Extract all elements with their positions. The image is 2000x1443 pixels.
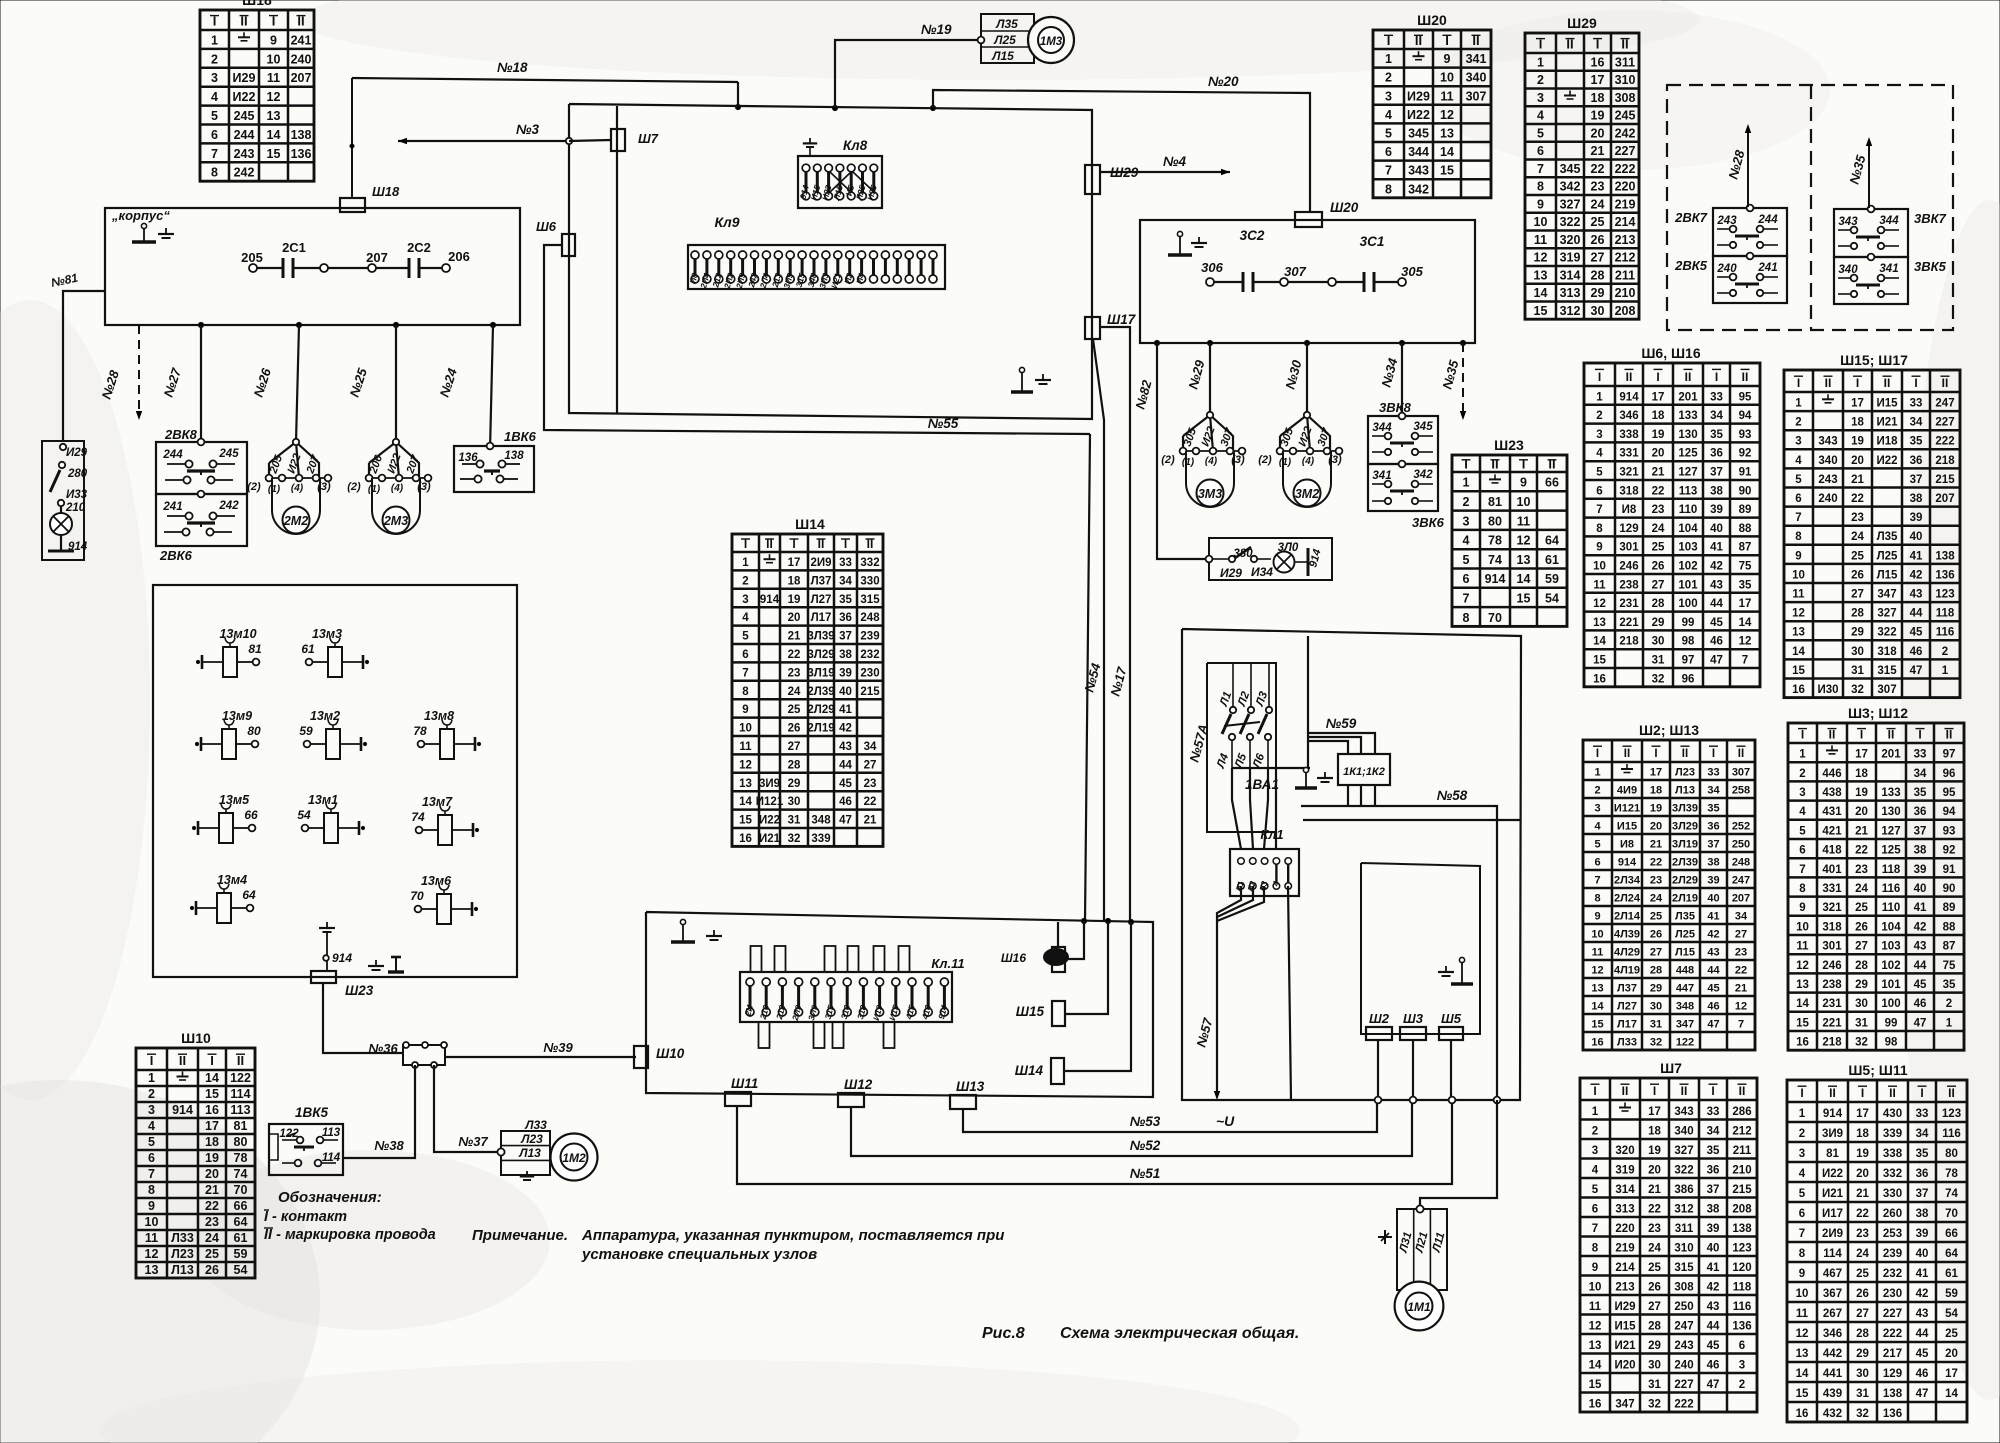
svg-text:36: 36 (1914, 806, 1927, 818)
svg-text:37: 37 (839, 631, 852, 643)
svg-text:1ВК5: 1ВК5 (295, 1105, 329, 1120)
svg-text:И22: И22 (1407, 108, 1430, 122)
svg-text:212: 212 (1615, 251, 1636, 265)
svg-text:1: 1 (1537, 56, 1544, 70)
wire Ш2 drop (1377, 1040, 1379, 1100)
svg-text:36: 36 (1707, 821, 1719, 833)
svg-text:27: 27 (1648, 1301, 1661, 1313)
svg-text:20: 20 (1855, 806, 1868, 818)
svg-text:8: 8 (1385, 182, 1392, 196)
svg-text:Ш29: Ш29 (1567, 15, 1597, 31)
svg-text:5: 5 (1799, 1188, 1806, 1200)
junction t3 (1128, 919, 1133, 924)
svg-text:341: 341 (1372, 470, 1391, 482)
wire bus-Кл1 d (1275, 768, 1277, 849)
solenoid 13м8 (413, 709, 480, 759)
svg-text:81: 81 (248, 642, 262, 656)
solenoid 13м6 (410, 874, 477, 924)
svg-text:9: 9 (1444, 52, 1451, 66)
svg-text:11: 11 (1593, 579, 1606, 591)
svg-text:201: 201 (1678, 391, 1698, 403)
svg-text:240: 240 (1674, 1359, 1693, 1371)
switch 2ВК8/2ВК6 (156, 427, 247, 563)
svg-text:II: II (1685, 370, 1692, 384)
svg-text:127: 127 (1881, 825, 1900, 837)
svg-text:36: 36 (1916, 1168, 1929, 1180)
svg-text:41: 41 (1914, 902, 1927, 914)
svg-text:42: 42 (1916, 1288, 1929, 1300)
svg-text:22: 22 (1855, 845, 1868, 857)
svg-text:3: 3 (1799, 1148, 1805, 1160)
svg-text:28: 28 (1652, 598, 1665, 610)
svg-text:311: 311 (1675, 1223, 1694, 1235)
svg-text:I: I (1464, 456, 1468, 471)
svg-text:81: 81 (234, 1119, 248, 1133)
svg-text:23: 23 (1851, 512, 1864, 524)
svg-text:2Л39: 2Л39 (1672, 857, 1698, 869)
svg-text:59: 59 (1945, 1288, 1958, 1300)
svg-text:4Л39: 4Л39 (1614, 929, 1640, 941)
svg-text:20: 20 (1851, 455, 1864, 467)
svg-text:286: 286 (1732, 1106, 1751, 1118)
svg-text:23: 23 (205, 1215, 219, 1229)
wire Ш14-t3 (1064, 922, 1131, 1071)
svg-text:2Л24: 2Л24 (1614, 893, 1641, 905)
junction b1 (1375, 1097, 1382, 1104)
svg-text:74: 74 (411, 810, 425, 824)
svg-text:78: 78 (1488, 534, 1502, 548)
svg-text:И22: И22 (233, 90, 256, 104)
svg-text:Ш11: Ш11 (731, 1076, 758, 1091)
svg-text:18: 18 (1648, 1125, 1661, 1137)
motor 2М2 (247, 439, 331, 534)
svg-text:914: 914 (68, 541, 88, 553)
svg-text:136: 136 (1732, 1320, 1751, 1332)
svg-text:II: II (1884, 376, 1891, 390)
svg-text:40: 40 (1916, 1248, 1929, 1260)
svg-text:242: 242 (218, 500, 239, 512)
svg-text:№3: №3 (516, 122, 539, 137)
svg-text:130: 130 (1678, 429, 1697, 441)
motor 3М3 (1161, 412, 1245, 507)
svg-text:13: 13 (1796, 1348, 1809, 1360)
svg-text:45: 45 (1910, 627, 1923, 639)
svg-text:138: 138 (291, 128, 312, 142)
svg-text:20: 20 (1856, 1168, 1869, 1180)
svg-text:914: 914 (760, 594, 780, 606)
svg-text:37: 37 (1707, 839, 1719, 851)
svg-text:2Л34: 2Л34 (1614, 875, 1641, 887)
capacitor 2С1 (282, 240, 306, 278)
svg-text:102: 102 (1678, 561, 1697, 573)
svg-text:3: 3 (1596, 429, 1602, 441)
svg-text:47: 47 (839, 815, 852, 827)
svg-text:27: 27 (864, 759, 877, 771)
svg-text:5: 5 (1463, 553, 1470, 567)
svg-text:23: 23 (1648, 1223, 1661, 1235)
svg-text:Л23: Л23 (171, 1247, 194, 1261)
svg-text:41: 41 (1916, 1268, 1929, 1280)
svg-text:34: 34 (1916, 1128, 1929, 1140)
svg-text:23: 23 (1735, 947, 1747, 959)
svg-text:4Л19: 4Л19 (1614, 965, 1640, 977)
connector Ш29 (1085, 165, 1139, 194)
svg-text:241: 241 (291, 33, 312, 47)
svg-text:243: 243 (1818, 474, 1837, 486)
junction №19 (832, 105, 837, 110)
svg-text:70: 70 (410, 889, 424, 903)
svg-text:23: 23 (1856, 1228, 1869, 1240)
wire Ш5 drop (1450, 1040, 1452, 1100)
svg-text:12: 12 (1593, 598, 1606, 610)
svg-text:338: 338 (1883, 1148, 1903, 1160)
svg-text:133: 133 (1678, 410, 1697, 422)
svg-text:46: 46 (1707, 1001, 1719, 1013)
svg-text:102: 102 (1881, 960, 1900, 972)
svg-text:20: 20 (205, 1167, 219, 1181)
svg-text:№55: №55 (928, 416, 959, 431)
svg-text:127: 127 (1678, 467, 1697, 479)
table Ш5; Ш11 (1787, 1062, 1967, 1422)
svg-text:442: 442 (1823, 1348, 1842, 1360)
svg-text:4И9: 4И9 (1617, 785, 1637, 797)
svg-text:15: 15 (1792, 665, 1805, 677)
svg-text:138: 138 (1935, 550, 1955, 562)
svg-text:5: 5 (1592, 1184, 1599, 1196)
svg-text:1М1: 1М1 (1407, 1300, 1431, 1314)
svg-text:74: 74 (1488, 553, 1502, 567)
svg-text:2Л19: 2Л19 (1672, 893, 1698, 905)
svg-text:70: 70 (234, 1183, 248, 1197)
svg-text:I: I (1801, 728, 1804, 742)
svg-text:20: 20 (1648, 1164, 1661, 1176)
svg-text:17: 17 (1856, 1108, 1869, 1120)
svg-text:27: 27 (788, 741, 801, 753)
svg-text:22: 22 (788, 649, 801, 661)
svg-text:II: II (1622, 1084, 1629, 1098)
svg-text:345: 345 (1413, 421, 1433, 433)
svg-text:30: 30 (1851, 646, 1864, 658)
svg-text:34: 34 (1910, 417, 1923, 429)
svg-text:16: 16 (1591, 56, 1605, 70)
svg-text:307: 307 (1284, 264, 1306, 279)
wire №18 (352, 60, 738, 107)
svg-text:231: 231 (1822, 998, 1842, 1010)
svg-text:74: 74 (1945, 1188, 1958, 1200)
svg-text:418: 418 (1822, 845, 1842, 857)
svg-text:206: 206 (448, 249, 470, 264)
svg-text:13: 13 (1591, 983, 1603, 995)
svg-text:28: 28 (1648, 1320, 1661, 1332)
svg-text:2: 2 (1592, 1125, 1598, 1137)
svg-text:59: 59 (299, 724, 313, 738)
svg-text:II: II (1738, 748, 1744, 760)
svg-text:227: 227 (1674, 1379, 1693, 1391)
svg-text:33: 33 (1910, 398, 1923, 410)
svg-text:2: 2 (1463, 495, 1470, 509)
svg-text:222: 222 (1935, 436, 1954, 448)
wire №53 (963, 1100, 1377, 1132)
svg-text:218: 218 (1822, 1037, 1842, 1049)
svg-text:227: 227 (1883, 1308, 1902, 1320)
svg-text:26: 26 (205, 1263, 219, 1277)
svg-text:30: 30 (1648, 1359, 1661, 1371)
svg-text:40: 40 (1710, 523, 1723, 535)
svg-text:16: 16 (739, 833, 752, 845)
svg-text:75: 75 (1739, 561, 1752, 573)
svg-text:78: 78 (1945, 1168, 1958, 1180)
svg-text:И33: И33 (66, 489, 88, 501)
label №57А (1186, 722, 1211, 763)
svg-text:245: 245 (1615, 109, 1636, 123)
svg-text:Л33: Л33 (524, 1118, 547, 1132)
svg-text:8: 8 (742, 686, 749, 698)
svg-text:61: 61 (1545, 553, 1559, 567)
svg-text:23: 23 (1652, 504, 1665, 516)
svg-text:26: 26 (1652, 561, 1665, 573)
svg-text:116: 116 (1942, 1128, 1961, 1140)
wire 306-3C2 (1214, 281, 1243, 283)
svg-text:№51: №51 (1130, 1166, 1161, 1181)
svg-text:Ш10: Ш10 (181, 1030, 211, 1046)
svg-text:26: 26 (1851, 569, 1864, 581)
svg-text:34: 34 (1735, 911, 1748, 923)
connector Ш16 (1001, 947, 1069, 972)
wire 1ВА1-Кл1 c (1264, 768, 1268, 849)
svg-text:40: 40 (1707, 893, 1719, 905)
svg-text:5: 5 (1799, 825, 1806, 837)
svg-text:218: 218 (1935, 455, 1955, 467)
svg-text:9: 9 (270, 33, 277, 47)
svg-text:345: 345 (1560, 162, 1581, 176)
svg-text:31: 31 (1648, 1379, 1661, 1391)
svg-text:7: 7 (1592, 1223, 1598, 1235)
svg-text:И15: И15 (1617, 821, 1637, 833)
svg-text:19: 19 (1855, 787, 1868, 799)
svg-text:222: 222 (1674, 1398, 1693, 1410)
svg-text:103: 103 (1678, 542, 1697, 554)
svg-text:43: 43 (1710, 579, 1723, 591)
svg-text:14: 14 (267, 128, 281, 142)
ground (Кл9 box) (1035, 374, 1051, 384)
svg-text:219: 219 (1615, 1242, 1634, 1254)
svg-text:215: 215 (1732, 1184, 1752, 1196)
node 206 (442, 249, 470, 272)
svg-text:21: 21 (1648, 1184, 1661, 1196)
solenoid 13м2 (299, 709, 366, 759)
svg-text:13: 13 (1589, 1340, 1602, 1352)
svg-text:28: 28 (1855, 960, 1868, 972)
svg-text:17: 17 (1652, 391, 1665, 403)
wire bus-1М1 (1420, 1100, 1497, 1206)
svg-text:12: 12 (1735, 1001, 1747, 1013)
svg-text:340: 340 (1466, 71, 1487, 85)
svg-text:315: 315 (1877, 665, 1897, 677)
svg-text:3Л39: 3Л39 (1672, 803, 1698, 815)
svg-text:914: 914 (172, 1103, 193, 1117)
svg-text:101: 101 (1881, 979, 1901, 991)
svg-text:13м10: 13м10 (219, 627, 256, 641)
svg-text:914: 914 (332, 951, 352, 965)
svg-text:431: 431 (1822, 806, 1842, 818)
svg-text:22: 22 (1851, 493, 1864, 505)
svg-text:45: 45 (1707, 1340, 1720, 1352)
svg-text:227: 227 (1935, 417, 1954, 429)
svg-text:29: 29 (1650, 983, 1662, 995)
svg-text:39: 39 (1707, 1223, 1720, 1235)
svg-text:14: 14 (1792, 646, 1805, 658)
svg-text:29: 29 (1648, 1340, 1661, 1352)
wire node-3C1 (1336, 281, 1364, 283)
svg-text:9: 9 (1799, 1268, 1805, 1280)
svg-text:1М2: 1М2 (562, 1151, 586, 1165)
wire V1 (1307, 636, 1309, 768)
svg-text:23: 23 (864, 778, 877, 790)
svg-text:96: 96 (1943, 768, 1956, 780)
svg-text:208: 208 (1615, 304, 1636, 318)
svg-text:И29: И29 (233, 71, 256, 85)
svg-text:9: 9 (1592, 1262, 1598, 1274)
svg-text:Л15: Л15 (991, 49, 1014, 63)
svg-text:114: 114 (230, 1087, 250, 1101)
svg-text:222: 222 (1883, 1328, 1902, 1340)
svg-text:4: 4 (1385, 108, 1392, 122)
svg-text:242: 242 (234, 166, 255, 180)
svg-text:3ВК7: 3ВК7 (1914, 211, 1947, 226)
svg-text:59: 59 (234, 1247, 248, 1261)
svg-text:22: 22 (1591, 162, 1605, 176)
svg-text:6: 6 (1385, 145, 1392, 159)
svg-text:15: 15 (1796, 1017, 1809, 1029)
svg-text:348: 348 (1676, 1001, 1694, 1013)
svg-text:252: 252 (1732, 821, 1750, 833)
svg-text:12: 12 (1739, 636, 1752, 648)
svg-text:343: 343 (1838, 216, 1858, 228)
svg-text:88: 88 (1943, 921, 1956, 933)
wire 1ВА1-Кл1 b (1250, 768, 1253, 849)
svg-text:34: 34 (864, 741, 877, 753)
svg-text:2Л39: 2Л39 (807, 686, 834, 698)
svg-text:330: 330 (860, 575, 879, 587)
svg-text:№20: №20 (1208, 74, 1239, 89)
svg-text:38: 38 (1916, 1208, 1929, 1220)
svg-text:Ш10: Ш10 (656, 1046, 685, 1061)
svg-text:16: 16 (1792, 684, 1805, 696)
svg-text:9: 9 (742, 704, 748, 716)
svg-text:315: 315 (1674, 1262, 1694, 1274)
connector Ш11 (725, 1076, 758, 1106)
wire №54 (1081, 434, 1103, 921)
svg-text:43: 43 (1914, 941, 1927, 953)
ground (корпус) (158, 228, 174, 238)
svg-text:247: 247 (1732, 875, 1750, 887)
svg-text:II: II (1829, 1086, 1836, 1100)
svg-text:231: 231 (1619, 598, 1639, 610)
svg-text:6: 6 (1795, 493, 1801, 505)
svg-text:22: 22 (864, 796, 877, 808)
svg-text:32: 32 (1856, 1408, 1869, 1420)
svg-text:33: 33 (839, 557, 852, 569)
svg-text:4: 4 (1537, 109, 1544, 123)
svg-text:39: 39 (1707, 875, 1719, 887)
svg-text:113: 113 (230, 1103, 250, 1117)
svg-text:6: 6 (1799, 845, 1805, 857)
svg-text:47: 47 (1916, 1388, 1929, 1400)
svg-text:25: 25 (1650, 911, 1662, 923)
svg-text:2Л29: 2Л29 (1672, 875, 1698, 887)
svg-text:2Л29: 2Л29 (807, 704, 834, 716)
svg-text:33: 33 (1707, 767, 1719, 779)
svg-text:35: 35 (839, 594, 852, 606)
svg-text:123: 123 (1942, 1108, 1961, 1120)
svg-text:27: 27 (1652, 579, 1665, 591)
wire №57 (1193, 886, 1264, 1100)
svg-text:33: 33 (1707, 1106, 1720, 1118)
svg-text:18: 18 (1855, 768, 1868, 780)
svg-text:№38: №38 (374, 1138, 404, 1153)
svg-text:243: 243 (1716, 215, 1737, 227)
svg-text:42: 42 (1707, 1281, 1720, 1293)
svg-text:245: 245 (234, 109, 255, 123)
svg-text:19: 19 (1650, 803, 1662, 815)
svg-text:29: 29 (788, 778, 801, 790)
svg-text:87: 87 (1943, 941, 1956, 953)
ground pin (Кл11 box) (671, 919, 695, 942)
table Ш23 (1452, 437, 1567, 626)
svg-text:21: 21 (1652, 467, 1665, 479)
svg-text:35: 35 (1710, 429, 1723, 441)
breaker 1ВА1 (1207, 663, 1279, 832)
svg-text:118: 118 (1733, 1281, 1752, 1293)
svg-text:2: 2 (1799, 768, 1805, 780)
svg-text:7: 7 (1596, 504, 1602, 516)
svg-text:15: 15 (267, 147, 281, 161)
svg-text:13: 13 (739, 778, 752, 790)
svg-text:3: 3 (1739, 1359, 1745, 1371)
svg-text:101: 101 (1678, 579, 1698, 591)
svg-text:2Л14: 2Л14 (1614, 911, 1641, 923)
junction t2 (1105, 918, 1110, 923)
connector Ш20 (1295, 200, 1359, 227)
ground pin (Кл9 box) (1011, 367, 1033, 392)
svg-text:2: 2 (211, 52, 218, 66)
svg-text:2ВК7: 2ВК7 (1674, 210, 1708, 225)
svg-text:17: 17 (1851, 398, 1864, 410)
svg-text:90: 90 (1943, 883, 1956, 895)
svg-text:54: 54 (1545, 592, 1559, 606)
node 307 (1280, 264, 1307, 286)
svg-text:122: 122 (1676, 1037, 1694, 1049)
svg-text:32: 32 (1648, 1398, 1661, 1410)
svg-text:104: 104 (1881, 921, 1901, 933)
svg-text:2: 2 (1739, 1379, 1745, 1391)
switch 3ВК8/3ВК6 (1368, 400, 1445, 530)
svg-text:2Л19: 2Л19 (807, 723, 834, 735)
svg-text:39: 39 (1910, 512, 1923, 524)
svg-text:314: 314 (1615, 1184, 1635, 1196)
node mid (320, 264, 328, 272)
svg-text:№52: №52 (1130, 1138, 1161, 1153)
svg-text:2: 2 (148, 1087, 155, 1101)
junction 24 (490, 322, 495, 327)
svg-text:13: 13 (1440, 127, 1454, 141)
svg-text:94: 94 (1943, 806, 1956, 818)
svg-text:40: 40 (839, 686, 852, 698)
svg-text:6: 6 (1592, 1203, 1598, 1215)
svg-text:14: 14 (739, 796, 752, 808)
svg-text:21: 21 (1855, 825, 1868, 837)
svg-text:6: 6 (1596, 485, 1602, 497)
